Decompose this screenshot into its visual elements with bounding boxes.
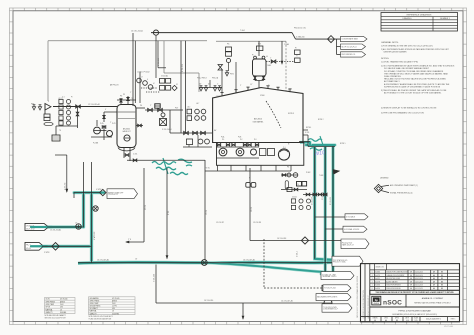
svg-text:TO 025-V-21: TO 025-V-21 xyxy=(108,194,118,196)
svg-text:GH: GH xyxy=(410,278,412,280)
svg-text:AH: AH xyxy=(433,280,435,283)
left drain pipe xyxy=(55,154,67,156)
svg-text:PI: PI xyxy=(71,97,73,99)
skid internal lines xyxy=(217,146,260,148)
relief valve PSV-2 xyxy=(38,105,41,110)
dashed drain line xyxy=(263,239,265,288)
instrument on crude line xyxy=(76,224,81,229)
pipe main inlet xyxy=(53,106,117,108)
hourglass vent xyxy=(218,65,223,71)
vessel bottom drain xyxy=(123,148,125,159)
drain collector line xyxy=(127,159,205,161)
tank outlet nozzles to risers xyxy=(299,141,310,143)
svg-text:2" D: 2" D xyxy=(128,239,132,241)
skid boxes xyxy=(260,149,266,156)
rotated strips xyxy=(364,264,366,322)
off-page flag recovered oil xyxy=(341,52,366,57)
black line under teal riser 2 xyxy=(324,147,326,274)
svg-text:CONDENSER 14-F: CONDENSER 14-F xyxy=(323,308,338,310)
svg-text:GH: GH xyxy=(410,272,412,274)
svg-text:NUMBER 1: NUMBER 1 xyxy=(440,18,450,20)
svg-text:NOTES:: NOTES: xyxy=(381,58,390,60)
junction cross circle xyxy=(201,260,207,266)
svg-text:GENERAL NOTE:: GENERAL NOTE: xyxy=(381,41,399,44)
off-page flag kickback B xyxy=(343,226,367,232)
level gauge standpipe xyxy=(103,112,105,122)
svg-text:025 TK-005: 025 TK-005 xyxy=(112,298,120,300)
svg-text:NTS: NTS xyxy=(415,320,418,322)
vertical feed lines to cluster xyxy=(134,41,136,103)
relief valve PSV-1 xyxy=(32,105,35,110)
svg-text:ISO VALVES SHALL BE INSTANT MA: ISO VALVES SHALL BE INSTANT MANUAL RESET xyxy=(384,67,430,70)
highlight header strand 2 xyxy=(205,263,333,273)
svg-text:NOTE 3: NOTE 3 xyxy=(288,113,294,115)
pipe top feed line xyxy=(151,32,292,34)
svg-text:MATERIAL: MATERIAL xyxy=(90,310,97,313)
svg-text:A 0650: A 0650 xyxy=(375,287,380,290)
off-page flag effluents xyxy=(316,294,351,301)
svg-text:01-11-2023: 01-11-2023 xyxy=(415,288,423,290)
signal dashes xyxy=(141,87,157,89)
control valve with actuator xyxy=(160,119,167,126)
off-page flag kickback A xyxy=(345,214,368,220)
svg-text:LC 401 L FV 4012: LC 401 L FV 4012 xyxy=(137,72,150,74)
svg-text:5000 BBL: 5000 BBL xyxy=(60,312,67,314)
svg-text:OPER. PRESS: OPER. PRESS xyxy=(90,300,100,302)
svg-text:TI: TI xyxy=(296,56,298,58)
svg-text:AH: AH xyxy=(433,277,435,280)
drop pipe with arrow xyxy=(281,41,283,64)
teal handwriting annotation 1 xyxy=(152,162,176,165)
svg-text:14"-OIL: 14"-OIL xyxy=(251,207,253,212)
svg-text:PCV: PCV xyxy=(175,108,178,110)
pump P-101B xyxy=(107,131,113,137)
highlight cross header at tank outlet xyxy=(306,143,335,146)
dark box pair on line xyxy=(155,104,160,108)
off-page flag slop oil xyxy=(341,44,366,49)
svg-text:MB: MB xyxy=(396,320,398,322)
black line under teal cross header xyxy=(308,146,335,148)
highlight over crude flag xyxy=(31,226,52,228)
highlight riser 1 xyxy=(82,194,85,228)
title block bottom row xyxy=(361,316,460,318)
instrument circle cross xyxy=(93,206,98,211)
svg-text:TERMINAL 14-F10: TERMINAL 14-F10 xyxy=(322,275,336,278)
black line under teal riser 1 xyxy=(314,147,316,259)
svg-text:6"-OIL-320: 6"-OIL-320 xyxy=(154,274,156,282)
svg-text:GH: GH xyxy=(374,320,376,322)
svg-text:PG: PG xyxy=(287,167,290,169)
svg-text:P-2: P-2 xyxy=(240,139,243,141)
material table 2 xyxy=(89,297,136,315)
svg-text:GH: GH xyxy=(410,275,412,277)
svg-text:MB: MB xyxy=(441,272,443,274)
svg-text:P-1: P-1 xyxy=(222,139,225,141)
pipe drop C xyxy=(204,160,206,260)
svg-text:8"-OIL-314: 8"-OIL-314 xyxy=(182,64,184,72)
svg-text:OPER. TEMP: OPER. TEMP xyxy=(90,303,99,305)
svg-text:10"-OIL-323: 10"-OIL-323 xyxy=(330,197,332,205)
storage tank AR-3605 gun barrel xyxy=(213,88,303,143)
svg-text:10"-OIL-312-A: 10"-OIL-312-A xyxy=(131,30,143,33)
roof risers xyxy=(221,70,223,93)
svg-text:C-1: C-1 xyxy=(283,147,286,149)
svg-text:PSV-4 A: PSV-4 A xyxy=(212,77,219,80)
svg-text:LI 4: LI 4 xyxy=(62,97,65,99)
svg-text:0.86: 0.86 xyxy=(112,308,115,310)
svg-text:IS AN OPERATING: IS AN OPERATING xyxy=(384,75,401,78)
svg-text:DRAWING: DRAWING xyxy=(402,17,412,20)
svg-text:A 0741: A 0741 xyxy=(375,277,380,280)
svg-text:3"-WTR: 3"-WTR xyxy=(44,252,50,254)
svg-text:REFERENCE DRAWINGS: REFERENCE DRAWINGS xyxy=(407,13,432,16)
instrument PI-1 on top line xyxy=(153,30,158,35)
svg-text:FC: FC xyxy=(176,84,178,86)
svg-text:2) ALL INSTRUMENTS AND STENCIL: 2) ALL INSTRUMENTS AND STENCILED PADS AR… xyxy=(381,48,450,51)
svg-text:NOTE: BBL PER DAY CAPACITY: NOTE: BBL PER DAY CAPACITY xyxy=(45,314,67,317)
svg-text:SLOP OIL 025-F-14: SLOP OIL 025-F-14 xyxy=(342,46,357,48)
svg-text:TI 403: TI 403 xyxy=(319,175,323,177)
svg-text:M: M xyxy=(288,144,290,146)
gauges row at filter xyxy=(281,174,298,176)
arrow into teal top right xyxy=(333,170,340,175)
water drawoff header black xyxy=(74,192,100,194)
gauge boxes at V2 xyxy=(257,46,263,51)
svg-text:A 0686: A 0686 xyxy=(375,284,380,287)
svg-text:6 OIL BACK: 6 OIL BACK xyxy=(346,215,356,218)
plot boundary left vertical xyxy=(47,41,49,101)
svg-text:MB: MB xyxy=(441,275,443,277)
svg-text:P-7 A/B: P-7 A/B xyxy=(93,142,98,145)
control boxes cluster xyxy=(160,79,165,84)
tank roof nozzles xyxy=(221,93,223,96)
svg-text:P-3: P-3 xyxy=(254,139,257,141)
svg-text:AH: AH xyxy=(433,274,435,277)
svg-text:nSOC: nSOC xyxy=(383,299,402,306)
svg-text:RECOVERED OIL: RECOVERED OIL xyxy=(342,54,356,56)
svg-text:THIS DRAWING AND DESIGN IS THE: THIS DRAWING AND DESIGN IS THE PROPERTY … xyxy=(376,291,455,294)
stub to border xyxy=(242,303,244,319)
valve row lower xyxy=(281,189,307,191)
highlight tank outlet riser 1 xyxy=(315,147,332,260)
pump P-202 xyxy=(236,148,244,156)
svg-text:A 0792: A 0792 xyxy=(375,274,380,277)
svg-text:MATERIAL: MATERIAL xyxy=(46,308,53,311)
svg-text:THE OPERATOR WILL SELECT WATER: THE OPERATOR WILL SELECT WATER DAN GAS/F… xyxy=(384,72,449,75)
svg-text:2.5 PSI: 2.5 PSI xyxy=(112,306,117,308)
svg-text:CS: CS xyxy=(60,309,62,311)
svg-text:02-02-2024: 02-02-2024 xyxy=(415,278,423,280)
svg-text:OPER TEMP: OPER TEMP xyxy=(46,304,54,306)
svg-text:REV 5: REV 5 xyxy=(451,319,456,321)
company name lines xyxy=(405,294,407,307)
svg-text:AR-3605: AR-3605 xyxy=(254,118,263,121)
filter pill xyxy=(285,181,288,189)
pipe corner at enclosure xyxy=(157,41,159,68)
svg-text:SP GR: SP GR xyxy=(46,307,50,309)
gauge pair above roof xyxy=(226,47,232,51)
signal drop line xyxy=(132,33,134,106)
off-page flag wash water xyxy=(25,242,44,250)
svg-text:1) FOR GENERAL NOTES SEE DWG.: 1) FOR GENERAL NOTES SEE DWG. NO 025-27-… xyxy=(381,45,433,48)
svg-text:PSV-41 12"-OIL: PSV-41 12"-OIL xyxy=(294,28,306,30)
svg-text:025 TK-006: 025 TK-006 xyxy=(60,299,68,301)
svg-text:CHKD: CHKD xyxy=(384,317,388,319)
gauges pairs mid xyxy=(187,109,192,114)
svg-text:CONDENSATE TANK: CONDENSATE TANK xyxy=(342,38,359,41)
svg-text:2) ISO. INSTRUMENTATION VALVE: 2) ISO. INSTRUMENTATION VALVE WITH DISTA… xyxy=(381,65,455,68)
svg-text:LG 2: LG 2 xyxy=(187,107,190,109)
svg-text:2": 2" xyxy=(240,85,242,87)
pipe drop B xyxy=(166,168,168,259)
flag feed line xyxy=(296,38,341,40)
svg-text:AR-3602: AR-3602 xyxy=(123,128,130,131)
vessel top fittings xyxy=(120,98,122,105)
svg-text:AH: AH xyxy=(433,287,435,290)
drops below skid xyxy=(217,165,219,171)
svg-text:150 F: 150 F xyxy=(60,304,64,306)
svg-text:SH: SH xyxy=(364,317,366,319)
manifold line xyxy=(170,132,212,134)
signal line from PI-1 xyxy=(155,35,157,78)
riser pipes to manifold xyxy=(180,41,182,133)
svg-text:8"-OIL: 8"-OIL xyxy=(168,211,170,215)
svg-text:1": 1" xyxy=(130,92,132,94)
svg-text:GUN BARREL: GUN BARREL xyxy=(90,297,100,300)
svg-text:AH: AH xyxy=(433,284,435,287)
svg-text:5) PIPE LINE PROGRAMMED ON COL: 5) PIPE LINE PROGRAMMED ON COLLECTION xyxy=(381,111,424,114)
svg-text:NOTE 2: NOTE 2 xyxy=(318,119,324,121)
highlight hook into flags xyxy=(321,273,333,276)
plot boundary right vertical dashed xyxy=(285,41,287,91)
svg-text:2"-GAS: 2"-GAS xyxy=(284,43,289,46)
pump skid box below tank xyxy=(217,143,304,166)
svg-text:DESIGN PRESS: DESIGN PRESS xyxy=(90,306,101,308)
off-page flag PRV station xyxy=(332,256,363,266)
svg-text:ISO STEAM, CONSTRUCTION MAL IN: ISO STEAM, CONSTRUCTION MAL INFORMED NEW… xyxy=(384,70,444,73)
off-page flag TK302 xyxy=(323,285,351,292)
reference drawings table xyxy=(381,13,458,32)
svg-text:MB: MB xyxy=(441,285,443,287)
svg-text:18-03-2024: 18-03-2024 xyxy=(415,275,423,277)
svg-text:TANK 025-F-17: TANK 025-F-17 xyxy=(342,243,354,246)
svg-text:PV: PV xyxy=(123,94,125,96)
svg-text:AH: AH xyxy=(433,271,435,274)
svg-text:A 0703: A 0703 xyxy=(375,280,380,283)
svg-text:LV 401 A2: LV 401 A2 xyxy=(161,74,168,77)
svg-text:RE-ROUTED LINES: RE-ROUTED LINES xyxy=(386,278,400,280)
pipe drop D xyxy=(249,168,251,241)
svg-text:CAPACITY: CAPACITY xyxy=(46,311,53,314)
teal handwriting annotation 2 xyxy=(308,139,322,142)
svg-text:025-27-0046: 025-27-0046 xyxy=(444,326,453,328)
collector below skid xyxy=(205,170,291,172)
svg-text:1) LEVEL TRANSMITTED (GUAGE TY: 1) LEVEL TRANSMITTED (GUAGE TYPE) xyxy=(381,60,418,63)
svg-text:SIGNAL PRESSURE (back): SIGNAL PRESSURE (back) xyxy=(390,192,413,195)
svg-text:APPROVED FOR DESIGN 025-27: APPROVED FOR DESIGN 025-27 xyxy=(367,295,370,318)
property statement band xyxy=(370,290,460,294)
pipe long header black base xyxy=(78,262,332,264)
diamond on wash water line xyxy=(52,243,60,251)
svg-text:AR PSV-1 B: AR PSV-1 B xyxy=(110,84,118,87)
svg-text:PSV 5: PSV 5 xyxy=(230,74,234,76)
svg-text:LEGEND: LEGEND xyxy=(380,177,389,179)
svg-text:PS: PS xyxy=(297,184,299,186)
svg-text:OPER PRESS: OPER PRESS xyxy=(46,301,55,303)
svg-text:GH: GH xyxy=(410,288,412,290)
pipe wash water black xyxy=(42,245,92,247)
inlet valve xyxy=(76,105,81,108)
drain pot xyxy=(52,135,60,141)
svg-text:LC: LC xyxy=(153,83,155,85)
svg-text:TO OIL: TO OIL xyxy=(205,168,210,170)
svg-text:P-7B: P-7B xyxy=(112,123,115,125)
svg-text:4 KICKBAL 025-F18: 4 KICKBAL 025-F18 xyxy=(344,228,359,231)
svg-text:LI: LI xyxy=(147,79,149,81)
svg-text:12"-OIL-321-A1: 12"-OIL-321-A1 xyxy=(50,229,61,232)
svg-text:OIL IN: OIL IN xyxy=(46,299,50,301)
svg-text:6"-OIL: 6"-OIL xyxy=(305,132,309,134)
note leader dashed curve xyxy=(266,101,281,128)
svg-text:P-1B: P-1B xyxy=(238,137,241,139)
svg-text:LG 7: LG 7 xyxy=(196,103,199,105)
svg-text:AUTOMATICALLY: AUTOMATICALLY xyxy=(384,80,401,83)
svg-text:GUN BARREL: GUN BARREL xyxy=(253,121,264,124)
svg-text:6"-OIL-315: 6"-OIL-315 xyxy=(64,183,66,190)
svg-text:REFINED GAS RECOVERED PHASE 2: REFINED GAS RECOVERED PHASE 2 PROJECT xyxy=(414,301,450,304)
svg-text:NOTE: DWG NO. 025-27-0046 SHT: NOTE: DWG NO. 025-27-0046 SHT 1 xyxy=(89,316,113,318)
off-page flag floating roof xyxy=(341,239,369,249)
svg-text:12"-OIL: 12"-OIL xyxy=(206,210,208,215)
svg-text:03-12-2023: 03-12-2023 xyxy=(415,285,423,287)
diamond valve on lateral xyxy=(301,237,308,244)
pipe from vessel to manifold xyxy=(145,109,183,111)
highlight riser 2 xyxy=(90,194,93,263)
svg-text:16": 16" xyxy=(135,259,138,261)
highlight drawoff header xyxy=(74,191,104,194)
svg-text:1": 1" xyxy=(270,58,272,60)
svg-text:PI: PI xyxy=(295,48,297,50)
logo mark xyxy=(372,296,381,305)
svg-text:IDENTIFICATION NUMBER: IDENTIFICATION NUMBER xyxy=(384,51,408,54)
svg-text:10"-OIL-316: 10"-OIL-316 xyxy=(204,300,213,302)
svg-text:AIR OPERATED TEMPORARY (1): AIR OPERATED TEMPORARY (1) xyxy=(390,184,418,187)
svg-text:24"MH: 24"MH xyxy=(260,95,264,97)
svg-text:16"-OIL-319-A1: 16"-OIL-319-A1 xyxy=(243,258,255,261)
pump suction piping xyxy=(100,130,106,132)
svg-text:SEE DWG 025-27-0044 FOR DET: SEE DWG 025-27-0044 FOR DET xyxy=(45,318,66,320)
svg-text:4"-WTR: 4"-WTR xyxy=(96,189,102,191)
svg-text:AH: AH xyxy=(385,319,387,322)
highlight elbow from tank xyxy=(300,142,310,145)
svg-text:14-01-2024: 14-01-2024 xyxy=(415,281,423,283)
svg-text:2"-OIL: 2"-OIL xyxy=(133,154,137,156)
flow pennant flag xyxy=(45,104,51,111)
material table 1 xyxy=(45,298,76,314)
svg-text:4) REMOTE DISPLAY TO BE INSTAL: 4) REMOTE DISPLAY TO BE INSTALLED IN CON… xyxy=(381,107,437,110)
tank roof relief valves xyxy=(199,86,202,91)
svg-text:AS POSSIBLE TO THE OUTLET NOZZ: AS POSSIBLE TO THE OUTLET NOZZLE OF THE … xyxy=(384,92,442,95)
switch boxes xyxy=(44,114,50,117)
svg-text:GH: GH xyxy=(410,281,412,283)
pipe stubs to top flags xyxy=(336,39,338,54)
svg-text:CS: CS xyxy=(112,311,114,313)
svg-text:A 0846: A 0846 xyxy=(375,271,380,274)
pipe riser to V2 xyxy=(258,41,260,56)
svg-text:16"-OIL-319: 16"-OIL-319 xyxy=(312,197,314,205)
svg-text:GUN BARREL (025-05-D314) & GAS: GUN BARREL (025-05-D314) & GAS BOOT (025… xyxy=(392,313,437,316)
svg-text:10"-OIL: 10"-OIL xyxy=(145,205,147,210)
svg-text:CHANGE OF EQUIPMENT: CHANGE OF EQUIPMENT xyxy=(386,274,404,277)
svg-text:FI: FI xyxy=(249,178,251,180)
svg-text:10000 BBL: 10000 BBL xyxy=(112,313,119,315)
enclosure step lines xyxy=(163,41,165,73)
svg-text:3/4": 3/4" xyxy=(208,84,211,86)
pipe lateral to floating roof flag xyxy=(250,240,341,242)
svg-text:PIPING & INSTRUMENT DIAGRAM: PIPING & INSTRUMENT DIAGRAM xyxy=(398,309,431,312)
svg-text:PIC: PIC xyxy=(227,44,230,46)
svg-text:6": 6" xyxy=(105,109,107,111)
manifold boxes xyxy=(187,139,193,145)
instrument gauges grid xyxy=(59,99,63,103)
svg-text:ME-1: ME-1 xyxy=(268,65,272,67)
legend diamond symbol xyxy=(374,184,382,192)
svg-text:MB: MB xyxy=(441,278,443,280)
svg-text:GH: GH xyxy=(410,285,412,287)
svg-text:MV: MV xyxy=(214,130,216,132)
highlight long header xyxy=(78,262,332,263)
svg-text:10"-OIL-317: 10"-OIL-317 xyxy=(216,222,224,224)
svg-text:3) TAS-923 SHALL BE PLACED UND: 3) TAS-923 SHALL BE PLACED UNDER THE GAT… xyxy=(381,89,447,92)
svg-text:SUPERVISORS IN CASE OF DISCREP: SUPERVISORS IN CASE OF DISCREPANCY VALVE… xyxy=(384,85,441,88)
svg-text:LT: LT xyxy=(141,77,143,79)
svg-text:PSV-2 PSV-3: PSV-2 PSV-3 xyxy=(197,78,207,80)
off-page flag crude inlet xyxy=(25,223,49,230)
svg-text:ISSUE FOR DESIGN: ISSUE FOR DESIGN xyxy=(386,288,400,290)
plot boundary right section xyxy=(216,40,286,42)
pipe tank right nozzle xyxy=(303,129,308,131)
svg-text:CAD FILE 025-27-0046-001 REV A: CAD FILE 025-27-0046-001 REV A DRAWN BY … xyxy=(356,275,359,318)
svg-text:bp: bp xyxy=(375,298,379,302)
svg-text:4"-OIL-1: 4"-OIL-1 xyxy=(297,251,299,257)
off-page flag blowdown xyxy=(322,304,352,312)
instrument bubbles cluster above vessel xyxy=(137,78,142,83)
svg-text:SP GRAVITY: SP GRAVITY xyxy=(90,307,99,310)
instrument sq pairs right xyxy=(295,50,301,54)
black line under teal riser 3 xyxy=(332,146,334,276)
pump P-203 xyxy=(251,149,257,155)
svg-text:PI: PI xyxy=(252,55,254,57)
compressor large circle xyxy=(278,149,289,160)
company logo row xyxy=(370,306,460,308)
svg-text:ADDED VALVES: ADDED VALVES xyxy=(386,280,397,283)
svg-text:1": 1" xyxy=(217,84,219,86)
svg-text:0: 0 xyxy=(372,288,373,290)
riser pair black xyxy=(83,162,85,227)
svg-text:P-7A: P-7A xyxy=(100,122,103,125)
plot boundary line left section xyxy=(48,40,207,42)
valve right of V2 xyxy=(271,60,276,63)
svg-text:025-27-0046 SHT 1: 025-27-0046 SHT 1 xyxy=(426,319,441,321)
svg-text:025-F-11/12: 025-F-11/12 xyxy=(26,228,35,230)
gauge grid below xyxy=(291,199,295,203)
instrument LI on vessel xyxy=(124,135,130,141)
svg-text:2": 2" xyxy=(150,105,152,107)
title block outline xyxy=(361,264,460,322)
svg-text:T-104: T-104 xyxy=(240,30,245,32)
valve diamond on top line xyxy=(328,36,335,43)
pump P-101A xyxy=(94,127,101,134)
